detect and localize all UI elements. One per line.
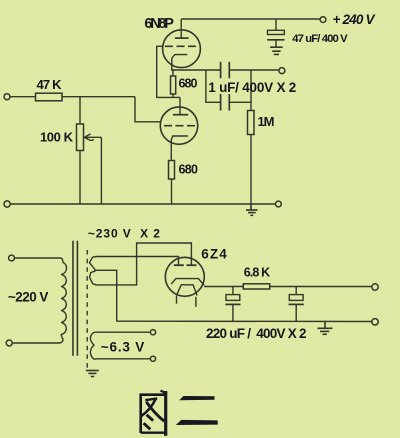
ground under C3 xyxy=(270,47,283,54)
wire output node to coupling caps xyxy=(171,69,220,71)
svg-text:1 M: 1 M xyxy=(258,114,275,129)
capacitor C5 220uF negative plate xyxy=(289,303,304,305)
terminal mains top xyxy=(9,255,15,261)
terminal 6.3V bottom xyxy=(150,356,155,361)
tube U1 plate 2 xyxy=(187,264,197,266)
ground under shield xyxy=(86,371,99,377)
wire mains bottom to primary xyxy=(12,342,60,344)
svg-text:~6.3 V: ~6.3 V xyxy=(101,340,145,355)
tube V1a 6N8P upper triode envelope xyxy=(163,30,201,68)
tube V1b 6N8P lower triode envelope xyxy=(160,107,197,144)
wire node to potentiometer top xyxy=(79,97,81,124)
terminal ground left xyxy=(4,201,10,207)
wire pot bottom to ground rail xyxy=(79,151,81,205)
transformer T1 6.3V winding xyxy=(90,332,95,359)
potentiometer 100K xyxy=(77,124,84,151)
capacitor C1 1uF top right plate xyxy=(228,62,230,79)
wire rail to C3 xyxy=(275,19,277,30)
capacitor C2 1uF bottom right plate xyxy=(228,94,230,111)
svg-text:680: 680 xyxy=(179,163,199,177)
svg-text:220 uF / 400V X 2: 220 uF / 400V X 2 xyxy=(206,326,307,341)
pin filament left xyxy=(176,296,178,304)
tube U1 cathode xyxy=(171,279,204,286)
terminal +240V xyxy=(320,17,326,23)
wire input to 47K xyxy=(10,96,35,98)
transformer shield (dashed) xyxy=(86,250,88,370)
svg-text:~230 V X 2: ~230 V X 2 xyxy=(88,226,160,240)
svg-text:47 K: 47 K xyxy=(37,77,63,92)
resistor R2 680 upper lead top xyxy=(172,70,174,76)
wire C5 to ground rail xyxy=(295,304,297,321)
pin filament right xyxy=(195,297,197,307)
resistor R4 1M xyxy=(248,111,255,135)
wire 6.3V top lead xyxy=(95,331,150,333)
tube V1a cathode xyxy=(172,55,188,70)
capacitor C3 47uF negative plate xyxy=(267,39,284,41)
tube U1 filament xyxy=(177,285,198,296)
wire R3 bottom to ground rail xyxy=(171,179,173,204)
svg-text:680: 680 xyxy=(179,77,198,91)
tube V1b plate xyxy=(173,114,188,116)
wire V1a cathode to output node xyxy=(172,69,173,71)
wire wiper to ground rail xyxy=(100,137,102,204)
svg-text:1 uF/ 400V X 2: 1 uF/ 400V X 2 xyxy=(208,80,296,95)
terminal input J1 xyxy=(4,94,10,100)
wire caps left link xyxy=(206,70,221,102)
ground symbol PSU xyxy=(318,321,333,334)
wire V1a grid to lower plate node xyxy=(157,46,180,97)
capacitor C2 1uF bottom left plate xyxy=(220,94,222,111)
ground symbol on top rail xyxy=(246,204,258,215)
wire C1 right to output terminal xyxy=(229,69,278,71)
wire V1a plate to +240V rail xyxy=(180,19,182,38)
resistor R3 680 lower xyxy=(169,161,175,180)
wire 1M to ground rail xyxy=(250,135,252,205)
terminal B+ output xyxy=(372,284,378,290)
wire +240V top rail xyxy=(181,18,320,20)
wire C3 to ground xyxy=(275,40,277,47)
wire 47K to grid-drop node xyxy=(62,96,135,98)
terminal 6.3V top xyxy=(150,330,155,335)
tube U1 6Z4 envelope xyxy=(165,257,204,296)
wire PSU ground rail xyxy=(117,320,372,322)
capacitor C5 220uF positive plate xyxy=(289,295,303,301)
terminal PSU ground xyxy=(372,319,378,325)
tube V1a plate xyxy=(175,37,189,39)
wire C5 tap xyxy=(295,287,297,295)
capacitor C4 220uF negative plate xyxy=(225,303,240,305)
svg-text:47 uF/ 400 V: 47 uF/ 400 V xyxy=(292,33,348,45)
transformer T1 primary winding xyxy=(59,258,67,343)
wire 6.8K to B+ terminal xyxy=(270,286,372,288)
wire top ground rail xyxy=(10,203,275,205)
wire grid coupling to V1b xyxy=(135,97,161,122)
svg-text:6Z4: 6Z4 xyxy=(201,247,227,262)
svg-text:6.8 K: 6.8 K xyxy=(244,265,271,279)
wire HV bottom lead to 6Z4 plate2 xyxy=(96,243,192,285)
potentiometer 100K wiper arrow xyxy=(85,136,101,138)
resistor 47K xyxy=(36,93,63,101)
wire HV center tap to ground rail xyxy=(95,270,117,321)
svg-text:+ 240 V: + 240 V xyxy=(333,12,376,27)
wire output node down to 1M xyxy=(250,70,252,111)
terminal ground right xyxy=(276,201,282,207)
capacitor C3 47uF positive plate xyxy=(268,30,285,34)
svg-text:6N8P: 6N8P xyxy=(144,16,174,32)
wire R2 bottom to junction xyxy=(172,94,174,97)
tube U1 plate 1 xyxy=(174,264,184,266)
resistor R5 6.8K xyxy=(243,284,269,289)
wire mains top to primary xyxy=(15,257,61,259)
tube V1b grid (dashed) xyxy=(164,125,195,127)
wire junction to V1b plate xyxy=(179,97,181,114)
capacitor C1 1uF top left plate xyxy=(220,62,222,79)
wire C4 to ground rail xyxy=(232,304,234,321)
terminal mains bottom xyxy=(6,340,12,346)
transformer T1 core xyxy=(72,241,74,356)
tube V1b cathode xyxy=(171,136,188,160)
wire C4 tap xyxy=(232,287,234,295)
wire 6.3V bottom lead xyxy=(95,358,150,360)
wire C2 right to 1M node xyxy=(229,101,251,103)
resistor R2 680 upper xyxy=(171,76,176,94)
caption 二 (two) xyxy=(176,396,218,425)
terminal output top xyxy=(279,68,285,74)
wire HV top lead to 6Z4 plate1 xyxy=(96,257,179,265)
caption 图 (figure) xyxy=(141,391,167,436)
tube V1a grid (dashed) xyxy=(165,45,197,47)
capacitor C4 220uF positive plate xyxy=(226,295,240,301)
transformer T1 HV secondary winding xyxy=(90,257,97,285)
wire 6Z4 cathode to 6.8K xyxy=(204,286,243,288)
svg-text:~220 V: ~220 V xyxy=(8,289,49,304)
svg-text:100 K: 100 K xyxy=(40,130,74,145)
